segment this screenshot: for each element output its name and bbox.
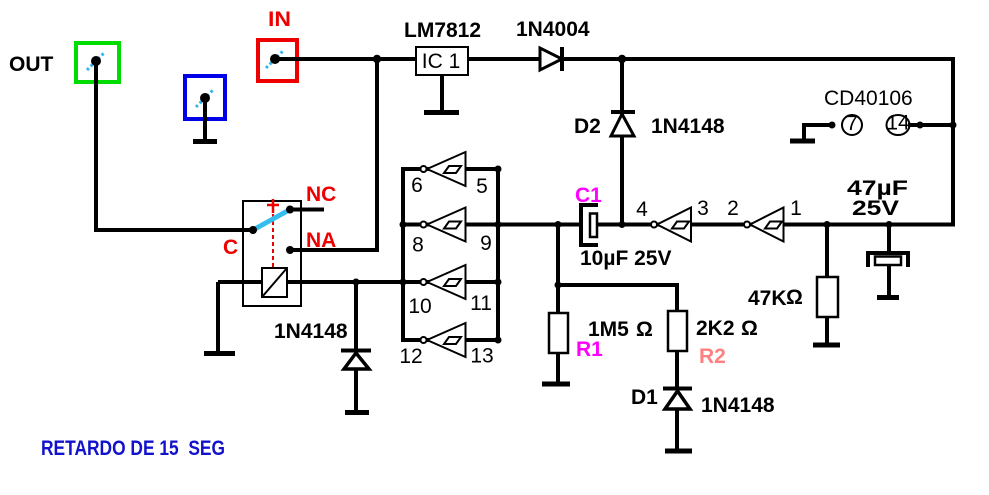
relay K1 <box>243 199 301 306</box>
wire 47K to ground <box>825 317 829 343</box>
svg-text:Ω: Ω <box>636 318 653 341</box>
terminal J3 IN (red box) <box>258 40 297 81</box>
svg-text:R2: R2 <box>699 345 726 368</box>
svg-text:12: 12 <box>399 345 422 368</box>
svg-text:8: 8 <box>412 234 424 257</box>
svg-text:OUT: OUT <box>9 53 54 76</box>
svg-text:D2: D2 <box>574 115 601 138</box>
wire R2 to D1 <box>675 351 679 388</box>
svg-text:6: 6 <box>411 174 423 197</box>
svg-text:IC 1: IC 1 <box>422 50 461 73</box>
inverter U1E pins 10/11 <box>421 265 466 299</box>
node main line / 47K <box>824 221 831 228</box>
resistor R1 1M5 <box>549 313 568 353</box>
svg-text:C1: C1 <box>575 184 602 207</box>
node left rail row2 <box>400 221 407 228</box>
row wire pins 6/5 <box>403 167 498 171</box>
inverter U1A pins 2/1 <box>744 208 784 242</box>
svg-text:1: 1 <box>790 197 802 220</box>
node bus/pin14 <box>950 122 957 129</box>
wire junction down to relay NA <box>290 59 377 250</box>
svg-text:7: 7 <box>846 112 858 135</box>
inverter U1C pins 6/5 <box>421 152 466 186</box>
svg-text:11: 11 <box>470 292 492 315</box>
svg-text:Ω: Ω <box>786 286 803 309</box>
svg-text:D1: D1 <box>631 386 658 409</box>
svg-text:14: 14 <box>886 112 910 135</box>
pin 7 circle <box>842 112 862 135</box>
wire R1 branch <box>556 225 560 314</box>
svg-text:1N4148: 1N4148 <box>651 115 725 138</box>
hex inverter bank rails <box>401 167 405 342</box>
node right rail row4 <box>495 337 502 344</box>
node main line / D2 <box>619 221 626 228</box>
node right rail row2 <box>495 221 502 228</box>
regulator IC1 box <box>416 47 468 75</box>
wire top rail <box>564 57 955 61</box>
svg-text:5: 5 <box>476 175 488 198</box>
capacitor C1 <box>581 205 598 245</box>
ground (IC1) <box>424 110 459 115</box>
wire 47uF to ground <box>887 265 891 296</box>
node IN/NA junction <box>373 55 381 63</box>
svg-text:RETARDO DE 15 SEG: RETARDO DE 15 SEG <box>41 437 225 460</box>
row wire pins 12/13 <box>403 338 498 342</box>
inverter U1F pins 12/13 <box>421 323 466 357</box>
ground (relay diode) <box>345 410 369 415</box>
wire main line to 47K resistor <box>825 225 829 279</box>
svg-text:1N4004: 1N4004 <box>516 18 590 41</box>
wire R1 to ground <box>556 353 560 382</box>
relay diode 1N4148 <box>341 351 371 370</box>
terminal J1 OUT (green box) <box>76 43 119 82</box>
wire NC stub <box>290 208 324 212</box>
ground (R1) <box>542 382 570 387</box>
node right rail row1 <box>495 166 502 173</box>
svg-text:C: C <box>223 236 238 259</box>
node pin7 <box>829 122 836 129</box>
diode D1 1N4148 <box>663 389 692 410</box>
svg-text:25V: 25V <box>852 197 899 220</box>
right bus wire <box>951 57 955 227</box>
resistor 47K <box>817 277 838 317</box>
wire D2 branch <box>620 59 624 225</box>
wire IC1 to 1N4004 <box>468 57 542 61</box>
svg-text:CD40106: CD40106 <box>824 87 913 110</box>
terminal J2 (blue box) <box>185 76 225 119</box>
wire IC1 to ground <box>440 75 444 111</box>
svg-text:NA: NA <box>306 229 336 252</box>
main signal line (right of C1) <box>596 223 953 227</box>
wire pin14 to right bus <box>908 123 953 127</box>
svg-text:1N4148: 1N4148 <box>274 320 348 343</box>
svg-text:R1: R1 <box>576 338 603 361</box>
relay coil feed wire <box>218 280 403 284</box>
node main line / R1 branch <box>555 221 562 228</box>
svg-text:1N4148: 1N4148 <box>701 394 775 417</box>
wire pin7 to ground <box>804 125 832 140</box>
node pin14 wire <box>917 122 924 129</box>
resistor R2 2K2 <box>668 311 687 351</box>
row wire pins 8/9 <box>403 223 498 227</box>
diode D2 1N4148 <box>611 112 635 136</box>
wire main line to 47uF cap <box>887 225 891 255</box>
wire OUT terminal to relay common C <box>96 61 253 230</box>
node right rail row3 <box>495 279 502 286</box>
wire link R1 to R2 <box>558 285 677 312</box>
svg-text:Ω: Ω <box>741 317 758 340</box>
inverter U1B pins 4/3 <box>651 208 691 242</box>
svg-text:NC: NC <box>306 183 336 206</box>
wire junction to relay diode <box>354 282 358 412</box>
svg-text:4: 4 <box>636 198 648 221</box>
capacitor 47uF 25V <box>868 253 908 267</box>
svg-text:LM7812: LM7812 <box>404 19 481 42</box>
node main line / 47uF <box>886 221 893 228</box>
svg-text:9: 9 <box>480 232 492 255</box>
pin 14 circle <box>886 112 910 136</box>
wire relay to ground <box>216 282 220 351</box>
svg-text:13: 13 <box>470 345 493 368</box>
wire IN to regulator IC1 <box>275 57 416 61</box>
svg-text:10: 10 <box>408 295 431 318</box>
wire J2 to ground <box>203 98 207 140</box>
inverter U1D pins 8/9 <box>421 208 466 242</box>
svg-text:3: 3 <box>697 197 709 220</box>
main signal line (left of C1) <box>498 223 582 227</box>
svg-text:47K: 47K <box>748 287 787 310</box>
node relay diode junction <box>353 279 360 286</box>
ground (relay) <box>204 351 235 356</box>
ground (D1) <box>665 449 692 454</box>
node left rail row3 <box>400 279 407 286</box>
svg-text:2: 2 <box>727 197 739 220</box>
ground (47uF) <box>877 295 899 300</box>
ground (47K) <box>813 343 840 348</box>
svg-text:2K2: 2K2 <box>696 317 735 340</box>
node top rail / D2 branch <box>618 55 626 63</box>
node R1/R2 link <box>555 282 562 289</box>
ground (pin7) <box>790 139 815 144</box>
svg-text:IN: IN <box>268 8 291 31</box>
ground (J2) <box>193 139 217 144</box>
svg-text:10µF 25V: 10µF 25V <box>580 247 672 270</box>
wire D1 to ground <box>675 409 679 449</box>
row wire pins 10/11 <box>356 280 498 284</box>
diode 1N4004 <box>540 47 562 71</box>
